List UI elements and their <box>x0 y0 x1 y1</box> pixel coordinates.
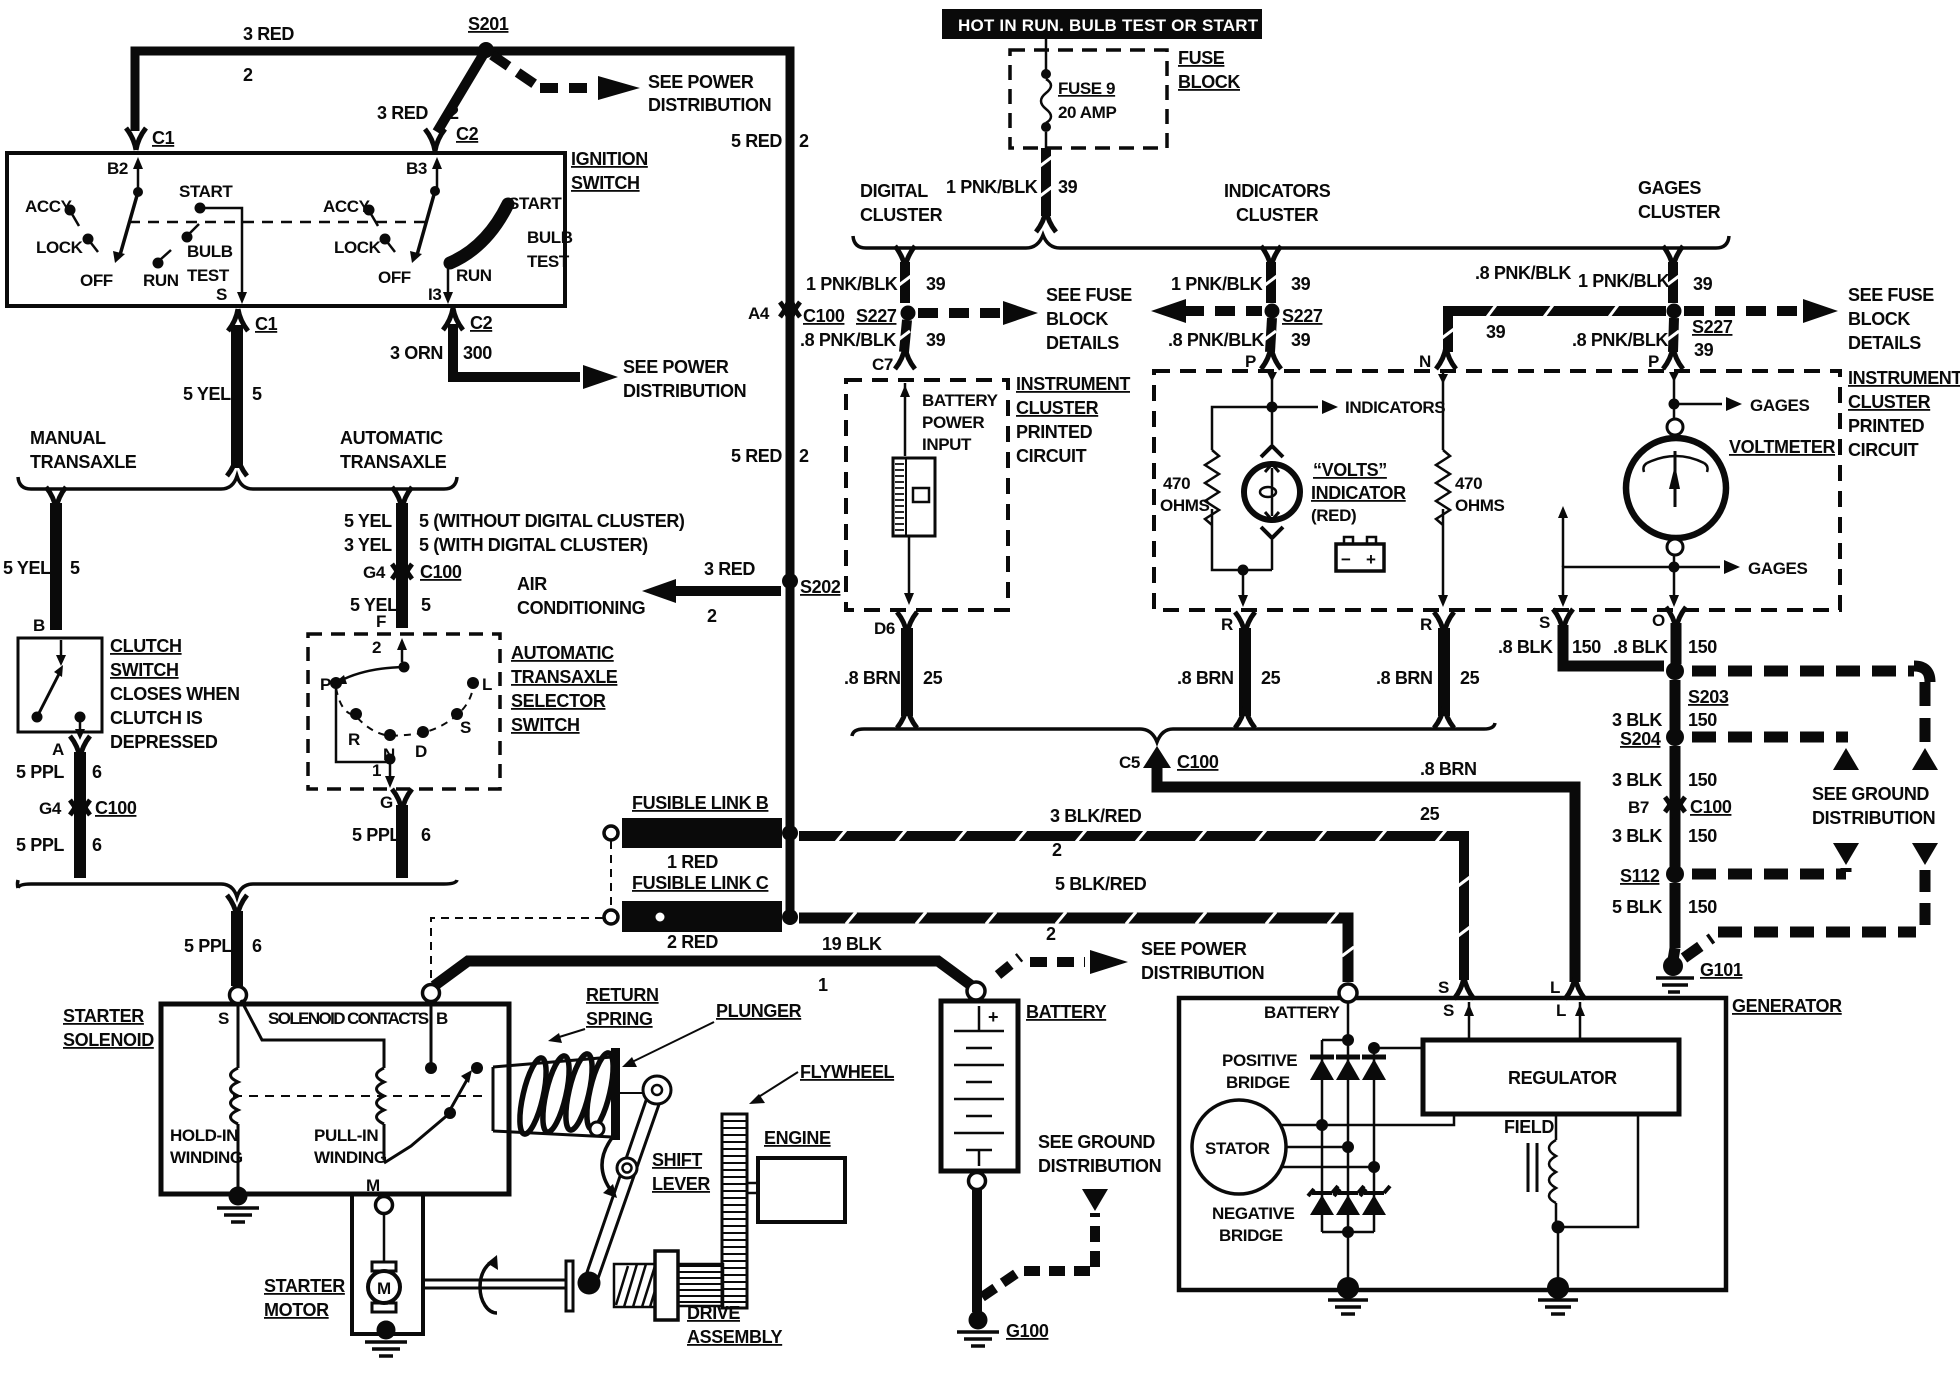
svg-text:CIRCUIT: CIRCUIT <box>1016 446 1087 466</box>
regulator sense line to stator lead <box>1322 1114 1454 1125</box>
connector C1 bottom <box>228 309 248 331</box>
resistor 470 ohms right <box>1442 373 1445 450</box>
wire 5 YEL to clutch switch <box>46 487 66 509</box>
svg-text:G101: G101 <box>1700 960 1743 980</box>
svg-text:C100: C100 <box>803 306 845 326</box>
svg-text:.8 BLK: .8 BLK <box>1613 637 1668 657</box>
svg-text:D6: D6 <box>874 619 895 638</box>
wire 5 PPL to starter solenoid S <box>227 895 247 917</box>
svg-text:DETAILS: DETAILS <box>1046 333 1119 353</box>
svg-text:39: 39 <box>1291 274 1311 294</box>
svg-text:DISTRIBUTION: DISTRIBUTION <box>1141 963 1264 983</box>
field ground <box>1547 1277 1569 1299</box>
dashed link line solenoid <box>233 1095 487 1097</box>
fuse 9 <box>1045 39 1048 70</box>
svg-text:3 RED: 3 RED <box>704 559 755 579</box>
svg-text:3 BLK/RED: 3 BLK/RED <box>1050 806 1142 826</box>
svg-text:39: 39 <box>1693 274 1713 294</box>
battery negative terminal <box>969 1173 986 1190</box>
svg-text:CLUSTER: CLUSTER <box>1638 202 1721 222</box>
svg-text:6: 6 <box>92 762 102 782</box>
svg-text:39: 39 <box>926 330 946 350</box>
svg-text:PLUNGER: PLUNGER <box>716 1001 802 1021</box>
svg-text:DRIVE: DRIVE <box>687 1303 740 1323</box>
svg-text:1 PNK/BLK: 1 PNK/BLK <box>1578 271 1670 291</box>
svg-text:3 ORN: 3 ORN <box>390 343 443 363</box>
svg-text:INPUT: INPUT <box>922 435 972 454</box>
svg-text:TEST: TEST <box>187 266 230 285</box>
svg-text:I3: I3 <box>428 285 441 304</box>
svg-text:3 BLK: 3 BLK <box>1612 710 1662 730</box>
wire 3 BLK/RED candy <box>799 836 1464 980</box>
svg-text:(RED): (RED) <box>1311 506 1356 525</box>
svg-text:5 BLK/RED: 5 BLK/RED <box>1055 874 1147 894</box>
svg-text:LOCK: LOCK <box>36 238 84 257</box>
svg-text:ASSEMBLY: ASSEMBLY <box>687 1327 783 1347</box>
svg-text:3 RED: 3 RED <box>243 24 294 44</box>
arrow to gages bottom <box>1674 566 1720 569</box>
contact LOCK 1 <box>83 234 94 245</box>
volts indicator lamp <box>1271 412 1274 444</box>
svg-text:+: + <box>1366 550 1376 569</box>
voltmeter body <box>1673 409 1676 421</box>
link to shift lever <box>620 1092 646 1094</box>
svg-text:HOLD-IN: HOLD-IN <box>170 1126 238 1145</box>
connector C2 bottom <box>443 308 463 330</box>
svg-text:L: L <box>1550 978 1560 997</box>
svg-text:SOLENOID: SOLENOID <box>63 1030 154 1050</box>
svg-text:CLUSTER: CLUSTER <box>860 205 943 225</box>
wire 5 BLK/RED candy <box>799 918 1348 982</box>
wire 3 BLK with B7 connector <box>1670 746 1681 868</box>
svg-text:C100: C100 <box>1177 752 1219 772</box>
wire .8 PNK/BLK gages P <box>1673 318 1674 352</box>
contact LOCK 2 <box>380 234 391 245</box>
svg-text:S: S <box>1443 1001 1454 1020</box>
svg-text:S: S <box>216 285 227 304</box>
svg-text:.8 BLK: .8 BLK <box>1498 637 1553 657</box>
svg-text:25: 25 <box>1261 668 1281 688</box>
ignition switch box <box>7 153 565 306</box>
svg-text:FIELD: FIELD <box>1504 1117 1554 1137</box>
svg-text:G: G <box>380 793 393 812</box>
svg-text:M: M <box>377 1279 391 1298</box>
plunger body <box>493 1057 612 1137</box>
svg-text:F: F <box>376 612 386 631</box>
svg-text:BATTERY: BATTERY <box>1026 1002 1107 1022</box>
svg-text:GENERATOR: GENERATOR <box>1732 996 1842 1016</box>
svg-text:LOCK: LOCK <box>334 238 382 257</box>
field core <box>1528 1143 1537 1192</box>
svg-text:SEE FUSE: SEE FUSE <box>1848 285 1934 305</box>
svg-text:S204: S204 <box>1620 729 1661 749</box>
svg-text:1 PNK/BLK: 1 PNK/BLK <box>1171 274 1263 294</box>
svg-text:AUTOMATIC: AUTOMATIC <box>511 643 614 663</box>
svg-text:PRINTED: PRINTED <box>1016 422 1093 442</box>
svg-text:2: 2 <box>372 638 381 657</box>
drive assembly <box>566 1261 573 1311</box>
diode column 2 / BAT feed <box>1347 1002 1350 1288</box>
wire 19 BLK <box>434 961 972 986</box>
svg-text:C7: C7 <box>872 355 893 374</box>
svg-text:CLOSES WHEN: CLOSES WHEN <box>110 684 240 704</box>
svg-text:IGNITION: IGNITION <box>571 149 648 169</box>
curved arrow at lever <box>602 1138 612 1192</box>
svg-text:3 RED: 3 RED <box>377 103 428 123</box>
svg-text:5 RED: 5 RED <box>731 131 782 151</box>
svg-text:RUN: RUN <box>143 271 179 290</box>
svg-text:S201: S201 <box>468 14 509 34</box>
svg-text:STARTER: STARTER <box>264 1276 345 1296</box>
svg-text:INDICATOR: INDICATOR <box>1311 483 1406 503</box>
positive bridge diodes <box>1310 1057 1386 1080</box>
svg-text:.8 PNK/BLK: .8 PNK/BLK <box>1168 330 1264 350</box>
svg-text:CLUSTER: CLUSTER <box>1236 205 1319 225</box>
contact BULB TEST 1 <box>182 232 193 243</box>
svg-text:AUTOMATIC: AUTOMATIC <box>340 428 443 448</box>
svg-text:5 PPL: 5 PPL <box>184 936 232 956</box>
wire dashed to power distribution right <box>998 957 1020 975</box>
svg-text:−: − <box>1341 550 1351 569</box>
svg-text:S227: S227 <box>1282 306 1323 326</box>
ignition switch wafer 2 rotor <box>430 186 440 196</box>
wire START to S terminal <box>200 208 242 293</box>
junction R <box>1238 565 1249 576</box>
connector A4 C100 on main feed <box>780 295 800 317</box>
svg-text:DETAILS: DETAILS <box>1848 333 1921 353</box>
svg-text:GAGES: GAGES <box>1638 178 1701 198</box>
svg-text:STATOR: STATOR <box>1205 1139 1270 1158</box>
svg-text:SPRING: SPRING <box>586 1009 653 1029</box>
svg-text:INSTRUMENT: INSTRUMENT <box>1848 368 1960 388</box>
svg-text:START: START <box>179 182 233 201</box>
wire 3 RED to air conditioning <box>674 586 781 596</box>
selector rotor to P <box>340 667 404 681</box>
diode column 1 <box>1321 1040 1324 1232</box>
svg-text:SEE GROUND: SEE GROUND <box>1812 784 1929 804</box>
svg-text:O: O <box>1652 611 1665 630</box>
svg-text:INDICATORS: INDICATORS <box>1345 398 1445 417</box>
hot in run banner <box>942 9 1262 39</box>
svg-text:HOT IN RUN. BULB TEST OR START: HOT IN RUN. BULB TEST OR START <box>958 16 1259 35</box>
cluster brace <box>853 235 1729 248</box>
solenoid moving contact <box>430 1001 433 1064</box>
svg-text:5: 5 <box>252 384 262 404</box>
svg-text:.8 BRN: .8 BRN <box>1420 759 1477 779</box>
motor armature <box>383 1214 386 1262</box>
svg-text:SEE GROUND: SEE GROUND <box>1038 1132 1155 1152</box>
svg-text:WINDING: WINDING <box>314 1148 387 1167</box>
svg-text:“VOLTS”: “VOLTS” <box>1313 460 1387 480</box>
svg-text:PULL-IN: PULL-IN <box>314 1126 378 1145</box>
svg-text:OFF: OFF <box>80 271 113 290</box>
contact RUN 1 <box>153 258 164 269</box>
svg-text:39: 39 <box>1694 340 1714 360</box>
svg-text:470: 470 <box>1455 474 1482 493</box>
svg-text:5 (WITH DIGITAL CLUSTER): 5 (WITH DIGITAL CLUSTER) <box>419 535 648 555</box>
wire dashed to ground distribution <box>982 1271 1020 1297</box>
spring coils <box>514 1051 618 1137</box>
svg-text:39: 39 <box>926 274 946 294</box>
svg-text:CONDITIONING: CONDITIONING <box>517 598 645 618</box>
wire .8 PNK/BLK to N <box>1448 311 1666 352</box>
svg-text:INSTRUMENT: INSTRUMENT <box>1016 374 1130 394</box>
dashed from G101 up right <box>1684 938 1712 958</box>
svg-text:6: 6 <box>252 936 262 956</box>
svg-text:DISTRIBUTION: DISTRIBUTION <box>1038 1156 1161 1176</box>
svg-text:C5: C5 <box>1119 753 1140 772</box>
P input node <box>1271 373 1274 404</box>
svg-text:25: 25 <box>1460 668 1480 688</box>
svg-text:1 RED: 1 RED <box>667 852 718 872</box>
splice S202 <box>782 573 798 589</box>
dashed ground distribution right top <box>1692 666 1914 677</box>
svg-text:DEPRESSED: DEPRESSED <box>110 732 218 752</box>
svg-text:5 BLK: 5 BLK <box>1612 897 1662 917</box>
svg-text:MOTOR: MOTOR <box>264 1300 329 1320</box>
svg-text:5 (WITHOUT DIGITAL CLUSTER): 5 (WITHOUT DIGITAL CLUSTER) <box>419 511 685 531</box>
field coil <box>1555 1114 1558 1140</box>
svg-text:25: 25 <box>923 668 943 688</box>
dashed arrow see fuse block right <box>1684 306 1800 316</box>
diode column 3 <box>1373 1048 1376 1232</box>
svg-text:VOLTMETER: VOLTMETER <box>1729 437 1835 457</box>
svg-text:FUSE: FUSE <box>1178 48 1225 68</box>
svg-text:2 RED: 2 RED <box>667 932 718 952</box>
wire P to pin 1 <box>336 686 388 762</box>
connector C2 top of ignition switch <box>425 129 445 151</box>
svg-text:1: 1 <box>818 975 828 995</box>
svg-text:INDICATORS: INDICATORS <box>1224 181 1331 201</box>
edge connector component <box>893 458 935 536</box>
dashed jumper links to solenoid B <box>610 841 612 909</box>
svg-text:+: + <box>988 1007 998 1027</box>
svg-text:G4: G4 <box>363 563 386 582</box>
svg-text:150: 150 <box>1688 637 1717 657</box>
svg-text:6: 6 <box>421 825 431 845</box>
svg-text:CLUTCH IS: CLUTCH IS <box>110 708 203 728</box>
svg-text:BRIDGE: BRIDGE <box>1219 1226 1283 1245</box>
svg-text:S202: S202 <box>800 577 841 597</box>
svg-text:5 YEL: 5 YEL <box>3 558 51 578</box>
arrow to indicators <box>1272 406 1318 409</box>
terminal L chevron <box>1565 977 1585 999</box>
splice S227 indicators <box>1265 304 1280 319</box>
svg-text:S227: S227 <box>1692 317 1733 337</box>
svg-text:R: R <box>1221 615 1233 634</box>
svg-text:RETURN: RETURN <box>586 985 659 1005</box>
wire .8 BLK S <box>1563 625 1664 666</box>
top bus <box>1322 1039 1348 1042</box>
svg-text:DIGITAL: DIGITAL <box>860 181 928 201</box>
svg-text:CLUSTER: CLUSTER <box>1848 392 1931 412</box>
terminal S chevron <box>1454 977 1474 999</box>
wire 5 YEL / 3 YEL to selector switch <box>392 487 412 509</box>
svg-text:OHMS: OHMS <box>1160 496 1209 515</box>
splice S112 <box>1666 865 1684 883</box>
svg-text:OFF: OFF <box>378 268 411 287</box>
shift lever arm <box>584 1076 671 1287</box>
svg-text:S112: S112 <box>1620 866 1660 886</box>
plunger plate <box>611 1048 620 1140</box>
svg-text:TRANSAXLE: TRANSAXLE <box>30 452 137 472</box>
arrow to gages top <box>1674 403 1722 406</box>
svg-text:39: 39 <box>1486 322 1506 342</box>
splice S201 <box>478 42 494 58</box>
svg-text:DISTRIBUTION: DISTRIBUTION <box>648 95 771 115</box>
svg-text:R: R <box>348 730 360 749</box>
svg-text:150: 150 <box>1572 637 1601 657</box>
svg-text:5 YEL: 5 YEL <box>183 384 231 404</box>
svg-text:.8 BRN: .8 BRN <box>844 668 901 688</box>
stator leads <box>1280 1125 1374 1167</box>
connector C5 C100 <box>1143 746 1171 768</box>
svg-text:S: S <box>1438 978 1449 997</box>
svg-text:5: 5 <box>421 595 431 615</box>
svg-text:SWITCH: SWITCH <box>110 660 179 680</box>
svg-text:1 PNK/BLK: 1 PNK/BLK <box>946 177 1038 197</box>
svg-text:B2: B2 <box>107 159 128 178</box>
svg-text:FUSIBLE LINK C: FUSIBLE LINK C <box>632 873 769 893</box>
svg-text:150: 150 <box>1688 897 1717 917</box>
svg-text:SEE POWER: SEE POWER <box>623 357 729 377</box>
automatic transaxle selector switch box <box>308 634 500 789</box>
regulator <box>1423 1040 1679 1114</box>
svg-text:5 PPL: 5 PPL <box>352 825 400 845</box>
svg-text:3 YEL: 3 YEL <box>344 535 392 555</box>
pin B3 <box>436 164 439 188</box>
svg-text:C1: C1 <box>152 128 175 148</box>
clutch switch box <box>18 638 102 732</box>
wire 5 BLK to G101 <box>1670 883 1681 948</box>
svg-text:BLOCK: BLOCK <box>1046 309 1108 329</box>
stator <box>1192 1100 1286 1194</box>
svg-text:BLOCK: BLOCK <box>1848 309 1910 329</box>
svg-text:C2: C2 <box>470 313 493 333</box>
svg-text:3 BLK: 3 BLK <box>1612 826 1662 846</box>
svg-text:STARTER: STARTER <box>63 1006 144 1026</box>
svg-text:P: P <box>320 675 331 694</box>
svg-text:1 PNK/BLK: 1 PNK/BLK <box>806 274 898 294</box>
selector contacts arc <box>336 688 473 736</box>
svg-text:POSITIVE: POSITIVE <box>1222 1051 1297 1070</box>
battery <box>941 1001 1018 1171</box>
brace transaxle bottom <box>18 880 457 897</box>
svg-text:1: 1 <box>372 761 381 780</box>
svg-text:DISTRIBUTION: DISTRIBUTION <box>623 381 746 401</box>
svg-text:2: 2 <box>799 446 809 466</box>
svg-text:BRIDGE: BRIDGE <box>1226 1073 1290 1092</box>
svg-text:470: 470 <box>1163 474 1190 493</box>
battery power input lead <box>904 383 907 456</box>
svg-text:TEST: TEST <box>527 252 570 271</box>
svg-text:BATTERY: BATTERY <box>922 391 999 410</box>
svg-text:TRANSAXLE: TRANSAXLE <box>511 667 618 687</box>
svg-text:25: 25 <box>1420 804 1440 824</box>
P input voltmeter <box>1673 373 1676 401</box>
terminal S <box>230 987 247 1004</box>
svg-text:S: S <box>218 1009 229 1028</box>
svg-text:D: D <box>415 742 427 761</box>
svg-text:20 AMP: 20 AMP <box>1058 103 1116 122</box>
svg-text:N: N <box>1419 352 1431 371</box>
svg-text:SOLENOID CONTACTS: SOLENOID CONTACTS <box>268 1009 429 1028</box>
connector C100 G4 <box>70 793 90 815</box>
svg-text:LEVER: LEVER <box>652 1174 710 1194</box>
arrows up into ground distribution <box>1833 748 1859 770</box>
svg-text:P: P <box>1245 352 1256 371</box>
connector C1 top of ignition switch <box>126 128 146 150</box>
svg-text:A: A <box>52 740 64 759</box>
svg-text:BULB: BULB <box>187 242 233 261</box>
dashed arrow see fuse block (left) <box>1184 306 1262 316</box>
svg-text:C100: C100 <box>1690 797 1732 817</box>
solenoid ground <box>229 1187 248 1206</box>
svg-text:SELECTOR: SELECTOR <box>511 691 606 711</box>
brace transaxle top <box>18 476 457 489</box>
svg-text:NEGATIVE: NEGATIVE <box>1212 1204 1295 1223</box>
splice S227 gages <box>1667 304 1682 319</box>
pin B2 <box>137 164 140 188</box>
svg-text:5 RED: 5 RED <box>731 446 782 466</box>
brace C5 <box>852 723 1495 742</box>
battery plates <box>954 1006 1004 1166</box>
svg-text:ENGINE: ENGINE <box>764 1128 831 1148</box>
svg-text:WINDING: WINDING <box>170 1148 243 1167</box>
svg-text:SEE FUSE: SEE FUSE <box>1046 285 1132 305</box>
svg-text:R: R <box>1420 615 1432 634</box>
svg-text:2: 2 <box>799 131 809 151</box>
svg-text:PRINTED: PRINTED <box>1848 416 1925 436</box>
svg-text:.8 BRN: .8 BRN <box>1177 668 1234 688</box>
svg-text:BATTERY: BATTERY <box>1264 1003 1341 1022</box>
svg-text:.8 PNK/BLK: .8 PNK/BLK <box>1572 330 1668 350</box>
clutch switch contacts <box>60 640 63 658</box>
svg-text:150: 150 <box>1688 770 1717 790</box>
svg-text:2: 2 <box>1052 840 1062 860</box>
svg-text:GAGES: GAGES <box>1748 559 1807 578</box>
wire 1 PNK/BLK fuse output <box>1041 148 1051 216</box>
svg-text:RUN: RUN <box>456 266 492 285</box>
pull-in winding feed <box>241 1000 384 1068</box>
svg-text:A4: A4 <box>748 304 770 323</box>
flywheel ring gear <box>722 1114 747 1308</box>
wire .8 PNK/BLK indicators <box>1270 318 1272 352</box>
svg-text:2: 2 <box>243 65 253 85</box>
rotation arrow <box>480 1261 497 1313</box>
splice S204 <box>1666 728 1684 746</box>
svg-text:GAGES: GAGES <box>1750 396 1809 415</box>
svg-text:START: START <box>508 194 562 213</box>
ground G101 <box>1663 956 1683 976</box>
svg-text:TRANSAXLE: TRANSAXLE <box>340 452 447 472</box>
contact ACCY 1 <box>65 205 76 216</box>
battery positive terminal <box>967 982 985 1000</box>
negative bridge diodes <box>1308 1186 1390 1215</box>
connector C100 G4 auto <box>392 557 412 579</box>
svg-text:MANUAL: MANUAL <box>30 428 106 448</box>
svg-text:SWITCH: SWITCH <box>511 715 580 735</box>
wire 3 RED to ignition C2 <box>437 50 486 132</box>
starter solenoid box <box>161 1004 509 1194</box>
wire .8 BLK O <box>1671 623 1682 664</box>
wire dashed to power distribution <box>492 55 536 85</box>
svg-text:150: 150 <box>1688 826 1717 846</box>
bottom bus <box>1322 1231 1374 1234</box>
svg-text:L: L <box>1556 1001 1566 1020</box>
svg-text:C100: C100 <box>95 798 137 818</box>
dashed arrow see fuse block details 1 <box>918 308 1000 318</box>
